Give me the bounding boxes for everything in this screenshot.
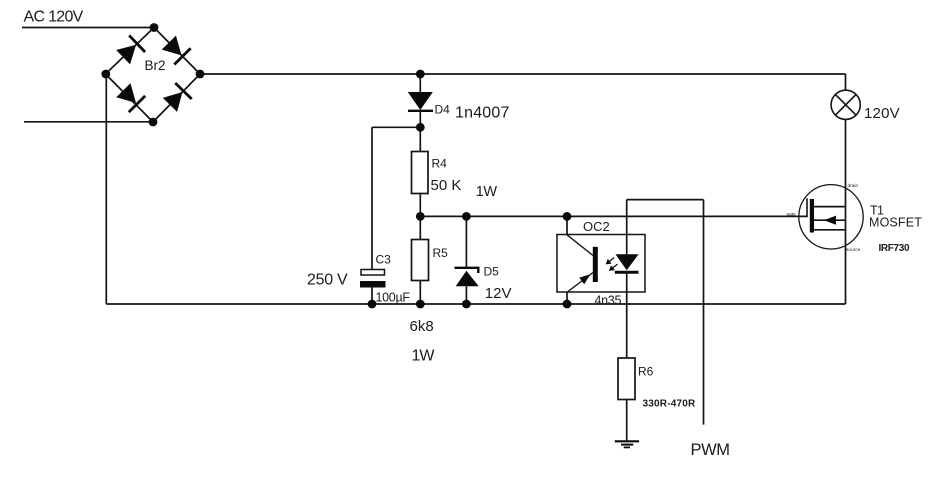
node top rail / D4 <box>416 70 425 79</box>
svg-text:R4: R4 <box>432 157 448 171</box>
node R4/R5/gate <box>416 212 425 221</box>
wire lamp feed <box>845 74 847 90</box>
svg-text:R5: R5 <box>433 246 449 260</box>
svg-text:gate: gate <box>787 212 797 218</box>
resistor R6 <box>618 358 635 400</box>
svg-text:PWM: PWM <box>691 441 730 459</box>
svg-text:1W: 1W <box>476 184 498 200</box>
wire lamp to mosfet and source drop <box>845 119 847 304</box>
svg-text:D5: D5 <box>484 265 500 279</box>
svg-text:OC2: OC2 <box>583 219 610 234</box>
wire R6 to ground <box>626 400 628 442</box>
node bridge left <box>101 70 110 79</box>
OC2 phototransistor base bar <box>593 247 598 282</box>
svg-text:source: source <box>846 247 861 253</box>
node D4 cathode / C3 branch <box>416 123 425 132</box>
svg-text:Br2: Br2 <box>145 58 166 73</box>
svg-text:IRF730: IRF730 <box>879 243 910 254</box>
wire LED anode riser <box>626 200 628 255</box>
OC2 phototransistor collector line <box>567 235 593 256</box>
wire OC2 emitter drop <box>566 292 568 304</box>
wire C3 bottom <box>371 288 373 305</box>
svg-text:330R-470R: 330R-470R <box>643 399 697 410</box>
wire top rail <box>200 73 846 75</box>
OC2 light arrow 2 <box>609 264 618 271</box>
svg-text:AC 120V: AC 120V <box>24 9 84 26</box>
OC2 LED triangle <box>616 254 639 270</box>
wire D5 top <box>465 216 467 267</box>
zener diode D5 <box>455 268 479 286</box>
wire bottom rail <box>106 303 845 305</box>
node bridge bottom <box>149 118 158 127</box>
svg-text:1n4007: 1n4007 <box>455 105 510 122</box>
wire bridge edge top-left <box>106 28 155 75</box>
node OC2 collector <box>563 212 572 221</box>
wire AC input line 2 <box>24 121 153 123</box>
svg-text:100µF: 100µF <box>376 291 411 305</box>
T1 source bottom line <box>814 229 846 231</box>
wire bridge-over top <box>627 199 704 201</box>
svg-text:12V: 12V <box>485 285 512 302</box>
lamp 120V <box>831 90 860 119</box>
node bridge top <box>150 23 159 32</box>
node C3 bottom <box>368 300 377 309</box>
svg-text:6k8: 6k8 <box>410 318 434 335</box>
node D5 bottom <box>462 300 471 309</box>
diode bridge Br2 diode top-right <box>161 35 191 65</box>
T1 body arrow <box>824 216 836 225</box>
svg-text:C3: C3 <box>376 253 392 267</box>
OC2 light arrow 1 <box>606 258 615 265</box>
wire D4 cathode to R4 <box>419 110 421 152</box>
wire bridge edge top-right <box>154 28 200 75</box>
wire left drop <box>105 74 107 304</box>
diode bridge Br2 diode bottom-right <box>162 83 192 113</box>
wire gate net <box>420 215 807 217</box>
T1 source/body middle line <box>814 219 846 221</box>
wire PWM drop <box>703 200 705 425</box>
wire OC2 collector drop <box>566 216 568 234</box>
diode bridge Br2 diode bottom-left <box>115 82 145 112</box>
node bridge right <box>196 70 205 79</box>
svg-text:1W: 1W <box>412 348 436 365</box>
svg-text:D4: D4 <box>435 103 451 117</box>
T1 gate electrode <box>806 198 808 217</box>
svg-text:MOSFET: MOSFET <box>869 216 922 230</box>
diode bridge Br2 diode top-left <box>115 35 145 65</box>
wire D5 bottom <box>465 286 467 304</box>
svg-text:50 K: 50 K <box>431 177 462 194</box>
capacitor C3 bottom plate <box>360 281 386 288</box>
transistor T1 MOSFET body circle <box>799 185 863 249</box>
node D5 top <box>462 212 471 221</box>
svg-text:250 V: 250 V <box>307 272 348 289</box>
svg-text:4n35: 4n35 <box>595 294 622 308</box>
wire C3 drop <box>371 127 373 269</box>
node OC2 emitter <box>563 300 572 309</box>
svg-text:drain: drain <box>848 183 859 189</box>
OC2 phototransistor emitter arrow <box>579 274 590 284</box>
ground symbol <box>615 441 639 447</box>
svg-text:R6: R6 <box>638 365 654 379</box>
resistor R5 <box>412 240 429 281</box>
diode D4 <box>408 92 433 111</box>
resistor R4 <box>412 152 429 194</box>
svg-text:120V: 120V <box>864 105 900 122</box>
wire LED cathode to R6 <box>626 274 628 359</box>
wire AC input line 1 <box>22 27 154 29</box>
wire bridge edge bottom-right <box>153 74 200 122</box>
node R5 bottom <box>416 300 425 309</box>
wire R5 bottom <box>419 281 421 305</box>
OC2 phototransistor emitter line <box>567 273 593 293</box>
optocoupler OC2 box <box>557 235 645 293</box>
wire C3 link <box>372 126 420 128</box>
OC2 LED cathode bar <box>615 271 639 274</box>
T1 channel bar <box>810 199 814 233</box>
wire R4 to R5 <box>419 194 421 240</box>
capacitor C3 top plate <box>361 270 385 276</box>
wire bridge edge bottom-left <box>106 74 154 122</box>
T1 drain line <box>814 206 846 208</box>
wire D4 anode <box>419 74 421 92</box>
